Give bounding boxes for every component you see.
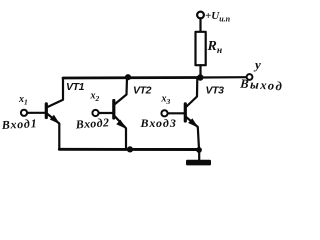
base lead VT2 [99, 112, 113, 114]
svg-text:x1: x1 [18, 94, 28, 107]
emitter arrow VT1 [50, 115, 60, 124]
emitter VT2 [115, 117, 126, 150]
svg-text:y: y [253, 57, 261, 72]
base bar VT2 [112, 101, 115, 119]
output terminal y [247, 74, 253, 80]
svg-text:Вход2: Вход2 [74, 115, 110, 131]
svg-text:VT1: VT1 [66, 81, 85, 93]
svg-text:Вход1: Вход1 [0, 116, 38, 132]
wire resistor to top rail [199, 65, 201, 77]
svg-text:Вход3: Вход3 [140, 116, 177, 130]
emitter VT3 [187, 117, 200, 149]
base lead VT1 [27, 112, 45, 114]
junction node VT2 emitter [127, 146, 133, 152]
transistor VT2 [92, 78, 127, 150]
wire top rail to output [200, 76, 247, 79]
svg-text:Выход: Выход [239, 76, 284, 93]
base bar VT3 [184, 104, 187, 121]
svg-text:x3: x3 [161, 94, 171, 107]
bottom rail (emitter bus) [59, 148, 198, 151]
transistor VT1 [21, 78, 63, 149]
svg-text:+Uи.п: +Uи.п [205, 10, 231, 24]
collector VT1 [48, 78, 64, 107]
transistor VT3 [161, 78, 199, 149]
base lead VT3 [168, 112, 185, 114]
input terminal x1 [21, 110, 27, 116]
junction node rail/ground [196, 147, 202, 153]
svg-text:x2: x2 [90, 91, 100, 104]
svg-text:VT2: VT2 [133, 85, 152, 97]
power terminal +Uи.п [197, 12, 204, 19]
wire rail to ground [198, 150, 200, 161]
top rail (collector bus) [63, 76, 200, 79]
svg-text:Rн: Rн [207, 39, 223, 56]
ground [186, 160, 211, 166]
emitter arrow VT3 [188, 118, 198, 127]
base bar VT1 [45, 104, 48, 118]
input terminal x2 [92, 110, 98, 116]
wire supply to resistor [199, 18, 201, 32]
junction node VT2 collector [125, 74, 131, 80]
collector VT3 [187, 78, 198, 107]
junction node resistor/rail/VT3 [197, 74, 203, 80]
input terminal x3 [161, 110, 167, 116]
resistor Rн [196, 32, 206, 65]
collector VT2 [115, 78, 127, 105]
svg-text:VT3: VT3 [206, 85, 225, 97]
emitter arrow VT2 [116, 120, 126, 129]
emitter VT1 [48, 114, 60, 149]
